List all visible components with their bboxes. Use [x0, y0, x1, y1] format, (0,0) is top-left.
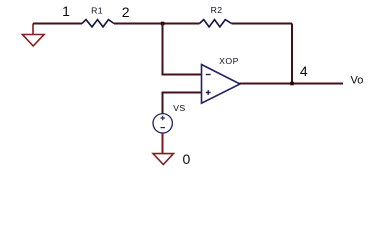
svg-text:Vo: Vo — [351, 75, 364, 87]
ground 0 (bottom) — [153, 154, 174, 165]
svg-text:2: 2 — [122, 4, 130, 20]
ground (left, input) — [23, 24, 45, 47]
wire noninverting input to VS — [163, 93, 202, 114]
resistor R2 — [200, 20, 232, 27]
output wire — [240, 83, 344, 85]
wire VS to ground — [162, 133, 164, 154]
svg-text:R1: R1 — [91, 5, 103, 15]
junction node 4 — [290, 82, 294, 86]
source VS — [153, 114, 172, 133]
junction node 2 — [161, 22, 165, 26]
svg-text:4: 4 — [300, 63, 308, 79]
wire node2 down to inverting input — [163, 24, 202, 75]
svg-text:R2: R2 — [211, 5, 223, 15]
resistor R1 — [82, 20, 114, 27]
wire R1 to R2 — [114, 23, 200, 25]
wire R2 to feedback corner — [232, 23, 293, 25]
svg-text:XOP: XOP — [219, 56, 239, 66]
svg-text:VS: VS — [173, 103, 185, 113]
op-amp U1 XOP — [202, 65, 241, 104]
svg-text:1: 1 — [62, 3, 70, 19]
op-amp minus pin mark — [206, 74, 211, 76]
svg-text:0: 0 — [183, 151, 191, 167]
wire ground to R1 — [33, 23, 82, 25]
op-amp plus pin mark — [206, 90, 211, 95]
wire feedback vertical — [291, 24, 293, 84]
